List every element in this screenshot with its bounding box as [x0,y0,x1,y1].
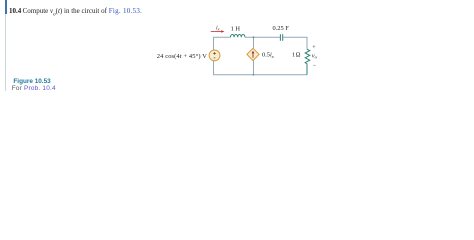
wire inductor to capacitor [245,36,280,38]
svg-text:−: − [313,63,317,69]
caption line For Prob. 10.4 [12,85,56,92]
wire capacitor to top-right corner [283,37,307,49]
sidebar accent bar [5,0,7,14]
svg-text:24 cos(4t + 45°) V: 24 cos(4t + 45°) V [157,53,207,60]
dependent source arrow [252,53,254,58]
svg-text:0.25 F: 0.25 F [273,25,290,32]
svg-text:+: + [312,45,316,51]
wire source to bottom-left corner [214,61,254,75]
dependent source D1 diamond [247,48,259,60]
junction dot top [253,36,255,38]
wire top-left segment [214,37,231,50]
svg-text:1 H: 1 H [231,25,241,32]
current arrow ix [211,31,222,33]
wire middle branch upper [253,37,255,48]
svg-text:vo: vo [312,52,318,59]
inductor L1 1H coil [231,34,245,37]
junction dot bottom [253,74,255,76]
voltage source VS circle [209,50,220,61]
wire middle branch lower [253,61,255,75]
capacitor C1 0.25F plates [279,34,281,41]
problem statement text [23,7,143,17]
svg-text:1 Ω: 1 Ω [292,52,301,59]
svg-text:0.5ix: 0.5ix [262,52,274,59]
problem number 10.4 [9,7,21,15]
voltage source plus sign [213,52,216,55]
voltage source minus sign [214,57,216,59]
svg-text:ix: ix [216,25,220,31]
circuit schematic [0,0,474,91]
vertical rule [5,14,6,91]
figure caption Figure 10.53 [13,78,50,85]
wire bottom segment [254,74,308,76]
resistor R1 zigzag [305,49,310,75]
